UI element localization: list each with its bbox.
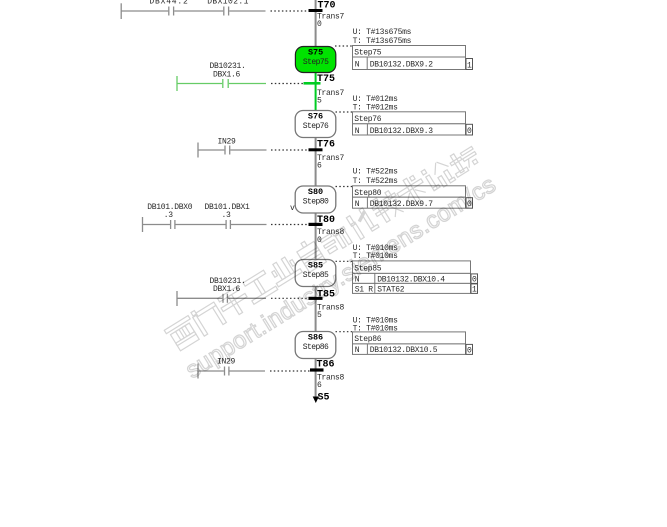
dotted wire to T75 [271, 83, 308, 85]
svg-text:Step76: Step76 [354, 115, 382, 124]
wire [121, 10, 168, 12]
watermark char 论 [421, 158, 456, 193]
action row N DB10132.DBX9.2 [353, 57, 466, 70]
step S75 (active) [295, 47, 335, 73]
wire [143, 224, 171, 226]
status box value 0 [466, 198, 473, 209]
svg-text:N: N [355, 127, 360, 136]
transition T76 bar [309, 148, 323, 151]
svg-text:0: 0 [467, 346, 472, 355]
action row N DB10132.DBX10.4 [353, 273, 471, 283]
wire [174, 10, 223, 12]
svg-text:Step76: Step76 [303, 122, 329, 131]
wire [230, 149, 266, 151]
watermark char 动 [320, 226, 353, 256]
watermark chinese line [163, 140, 483, 353]
dotted wire to T76 [271, 149, 309, 151]
watermark char 技 [369, 189, 406, 225]
transition T86 bar [310, 368, 324, 371]
svg-text:1: 1 [467, 61, 472, 70]
svg-text:T86: T86 [317, 359, 335, 370]
dotted wire S86 to action box [336, 331, 353, 333]
watermark char 西 [164, 316, 201, 353]
action row N DB10132.DBX10.5 [353, 344, 466, 355]
svg-text:T75: T75 [317, 74, 335, 85]
svg-text:5: 5 [317, 311, 322, 320]
dotted wire to T86 [270, 370, 310, 372]
svg-text:Step86: Step86 [303, 343, 329, 352]
dotted wire to T80 [271, 224, 308, 226]
power rail tick [142, 217, 144, 232]
wire [198, 149, 224, 151]
transition T75 bar (green/fired) [304, 82, 321, 85]
jump arrow to S5 [313, 397, 319, 404]
svg-text:T70: T70 [318, 1, 336, 12]
svg-text:0: 0 [472, 276, 477, 285]
svg-text:S1 R: S1 R [355, 286, 374, 295]
wire S76 to S80 [315, 138, 317, 188]
action box Step76 header [353, 112, 466, 124]
svg-text:Step86: Step86 [354, 335, 382, 344]
status box value 0 [466, 344, 473, 354]
dotted wire S75 to action box [335, 45, 352, 47]
status box value 0 [466, 124, 473, 135]
watermark char 自 [294, 237, 326, 272]
svg-text:N: N [355, 200, 360, 209]
contact DBX44.2 [168, 7, 170, 16]
svg-text:T76: T76 [317, 140, 335, 151]
svg-text:Step80: Step80 [354, 189, 382, 198]
svg-text:IN29: IN29 [217, 138, 236, 147]
svg-text:.3: .3 [221, 211, 231, 220]
svg-text:STAT62: STAT62 [377, 286, 405, 295]
svg-text:Step75: Step75 [354, 49, 382, 58]
svg-text:U: T#522ms: U: T#522ms [353, 168, 399, 177]
watermark char 坛 [446, 144, 481, 177]
watermark char 门 [190, 299, 226, 336]
svg-text:Step80: Step80 [303, 198, 329, 207]
status box value 1 [466, 59, 473, 70]
svg-text:S86: S86 [308, 333, 323, 343]
contact IN29 [224, 367, 226, 376]
action row S1 R STAT62 [353, 283, 471, 293]
status box value 0 [471, 274, 478, 284]
svg-text:S76: S76 [308, 112, 323, 122]
svg-text:S75: S75 [308, 48, 323, 58]
svg-text:T: T#012ms: T: T#012ms [353, 104, 399, 113]
svg-text:0: 0 [317, 20, 322, 29]
svg-text:T: T#522ms: T: T#522ms [353, 177, 399, 186]
wire S75 to S76 (active, green) [315, 72, 317, 111]
wire [230, 370, 266, 372]
svg-text:1: 1 [472, 286, 477, 295]
contact DBX102.1 [223, 7, 225, 16]
action box Step86 header [353, 332, 466, 344]
step S85 [295, 260, 336, 287]
dotted wire to T70 [271, 10, 308, 12]
transition T70 bar [309, 9, 323, 12]
wire S85 to S86 [315, 287, 317, 333]
watermark char 子 [216, 285, 253, 321]
power rail tick [197, 364, 199, 379]
status box value 1 [471, 284, 478, 294]
action row N DB10132.DBX9.7 [353, 197, 466, 208]
transition T85 bar [309, 297, 323, 300]
wire [231, 224, 267, 226]
svg-text:U: T#13s675ms: U: T#13s675ms [353, 28, 412, 37]
action box Step85 header [353, 261, 471, 274]
wire S86 to jump S5 [315, 359, 317, 400]
power rail tick [176, 76, 178, 91]
wire [176, 224, 226, 226]
step S80 [295, 186, 336, 213]
power rail tick [197, 143, 199, 158]
svg-text:DB10132.DBX9.2: DB10132.DBX9.2 [370, 60, 434, 69]
watermark char 化 [346, 206, 379, 240]
wire S80 to S85 [315, 213, 317, 260]
svg-text:5: 5 [317, 96, 322, 105]
svg-text:6: 6 [317, 381, 322, 390]
svg-text:S80: S80 [308, 187, 323, 197]
svg-text:DBX1.6: DBX1.6 [213, 70, 241, 79]
contact DB10231.DBX1.6 [222, 79, 224, 88]
svg-text:N: N [355, 346, 360, 355]
wire [229, 10, 265, 12]
watermark char 工 [241, 269, 277, 304]
action box Step75 header [353, 46, 466, 58]
svg-text:Step75: Step75 [303, 58, 329, 67]
wire [229, 83, 266, 85]
svg-text:T80: T80 [317, 215, 335, 226]
svg-text:DB10132.DBX9.7: DB10132.DBX9.7 [370, 200, 434, 209]
watermark char 术 [393, 172, 432, 211]
dotted wire S80 to action box [336, 186, 353, 188]
contact DB10231.DBX1.6 [222, 294, 224, 303]
svg-text:S5: S5 [318, 392, 330, 403]
dotted wire to T85 [271, 297, 309, 299]
dotted wire S85 to action box [336, 260, 353, 262]
wire [177, 297, 222, 299]
action box Step80 header [353, 186, 466, 197]
svg-text:T: T#13s675ms: T: T#13s675ms [353, 37, 412, 46]
svg-text:.3: .3 [164, 211, 174, 220]
step S76 [295, 111, 336, 138]
wire [198, 370, 224, 372]
action row N DB10132.DBX9.3 [353, 124, 466, 135]
dotted wire S76 to action box [336, 111, 353, 113]
svg-text:N: N [355, 60, 360, 69]
contact DB101.DBX0.3 [170, 220, 172, 229]
svg-text:6: 6 [317, 161, 322, 170]
svg-text:v: v [290, 204, 295, 213]
power rail tick [176, 291, 178, 306]
svg-text:DBX102.1: DBX102.1 [207, 0, 249, 7]
step S86 [295, 332, 336, 359]
contact IN29 [224, 146, 226, 155]
contact DB101.DBX1.3 [225, 220, 227, 229]
svg-text:DB10132.DBX10.5: DB10132.DBX10.5 [370, 346, 438, 355]
svg-text:DB10132.DBX9.3: DB10132.DBX9.3 [370, 127, 434, 136]
power rail tick [120, 3, 122, 19]
wire [228, 297, 266, 299]
transition T80 bar [309, 223, 323, 226]
wire [177, 83, 222, 85]
svg-text:DBX44.2: DBX44.2 [149, 0, 188, 7]
watermark char 业 [267, 253, 302, 286]
svg-text:0: 0 [467, 127, 472, 136]
svg-text:0: 0 [317, 236, 322, 245]
wire rail top to S75 [315, 0, 317, 47]
